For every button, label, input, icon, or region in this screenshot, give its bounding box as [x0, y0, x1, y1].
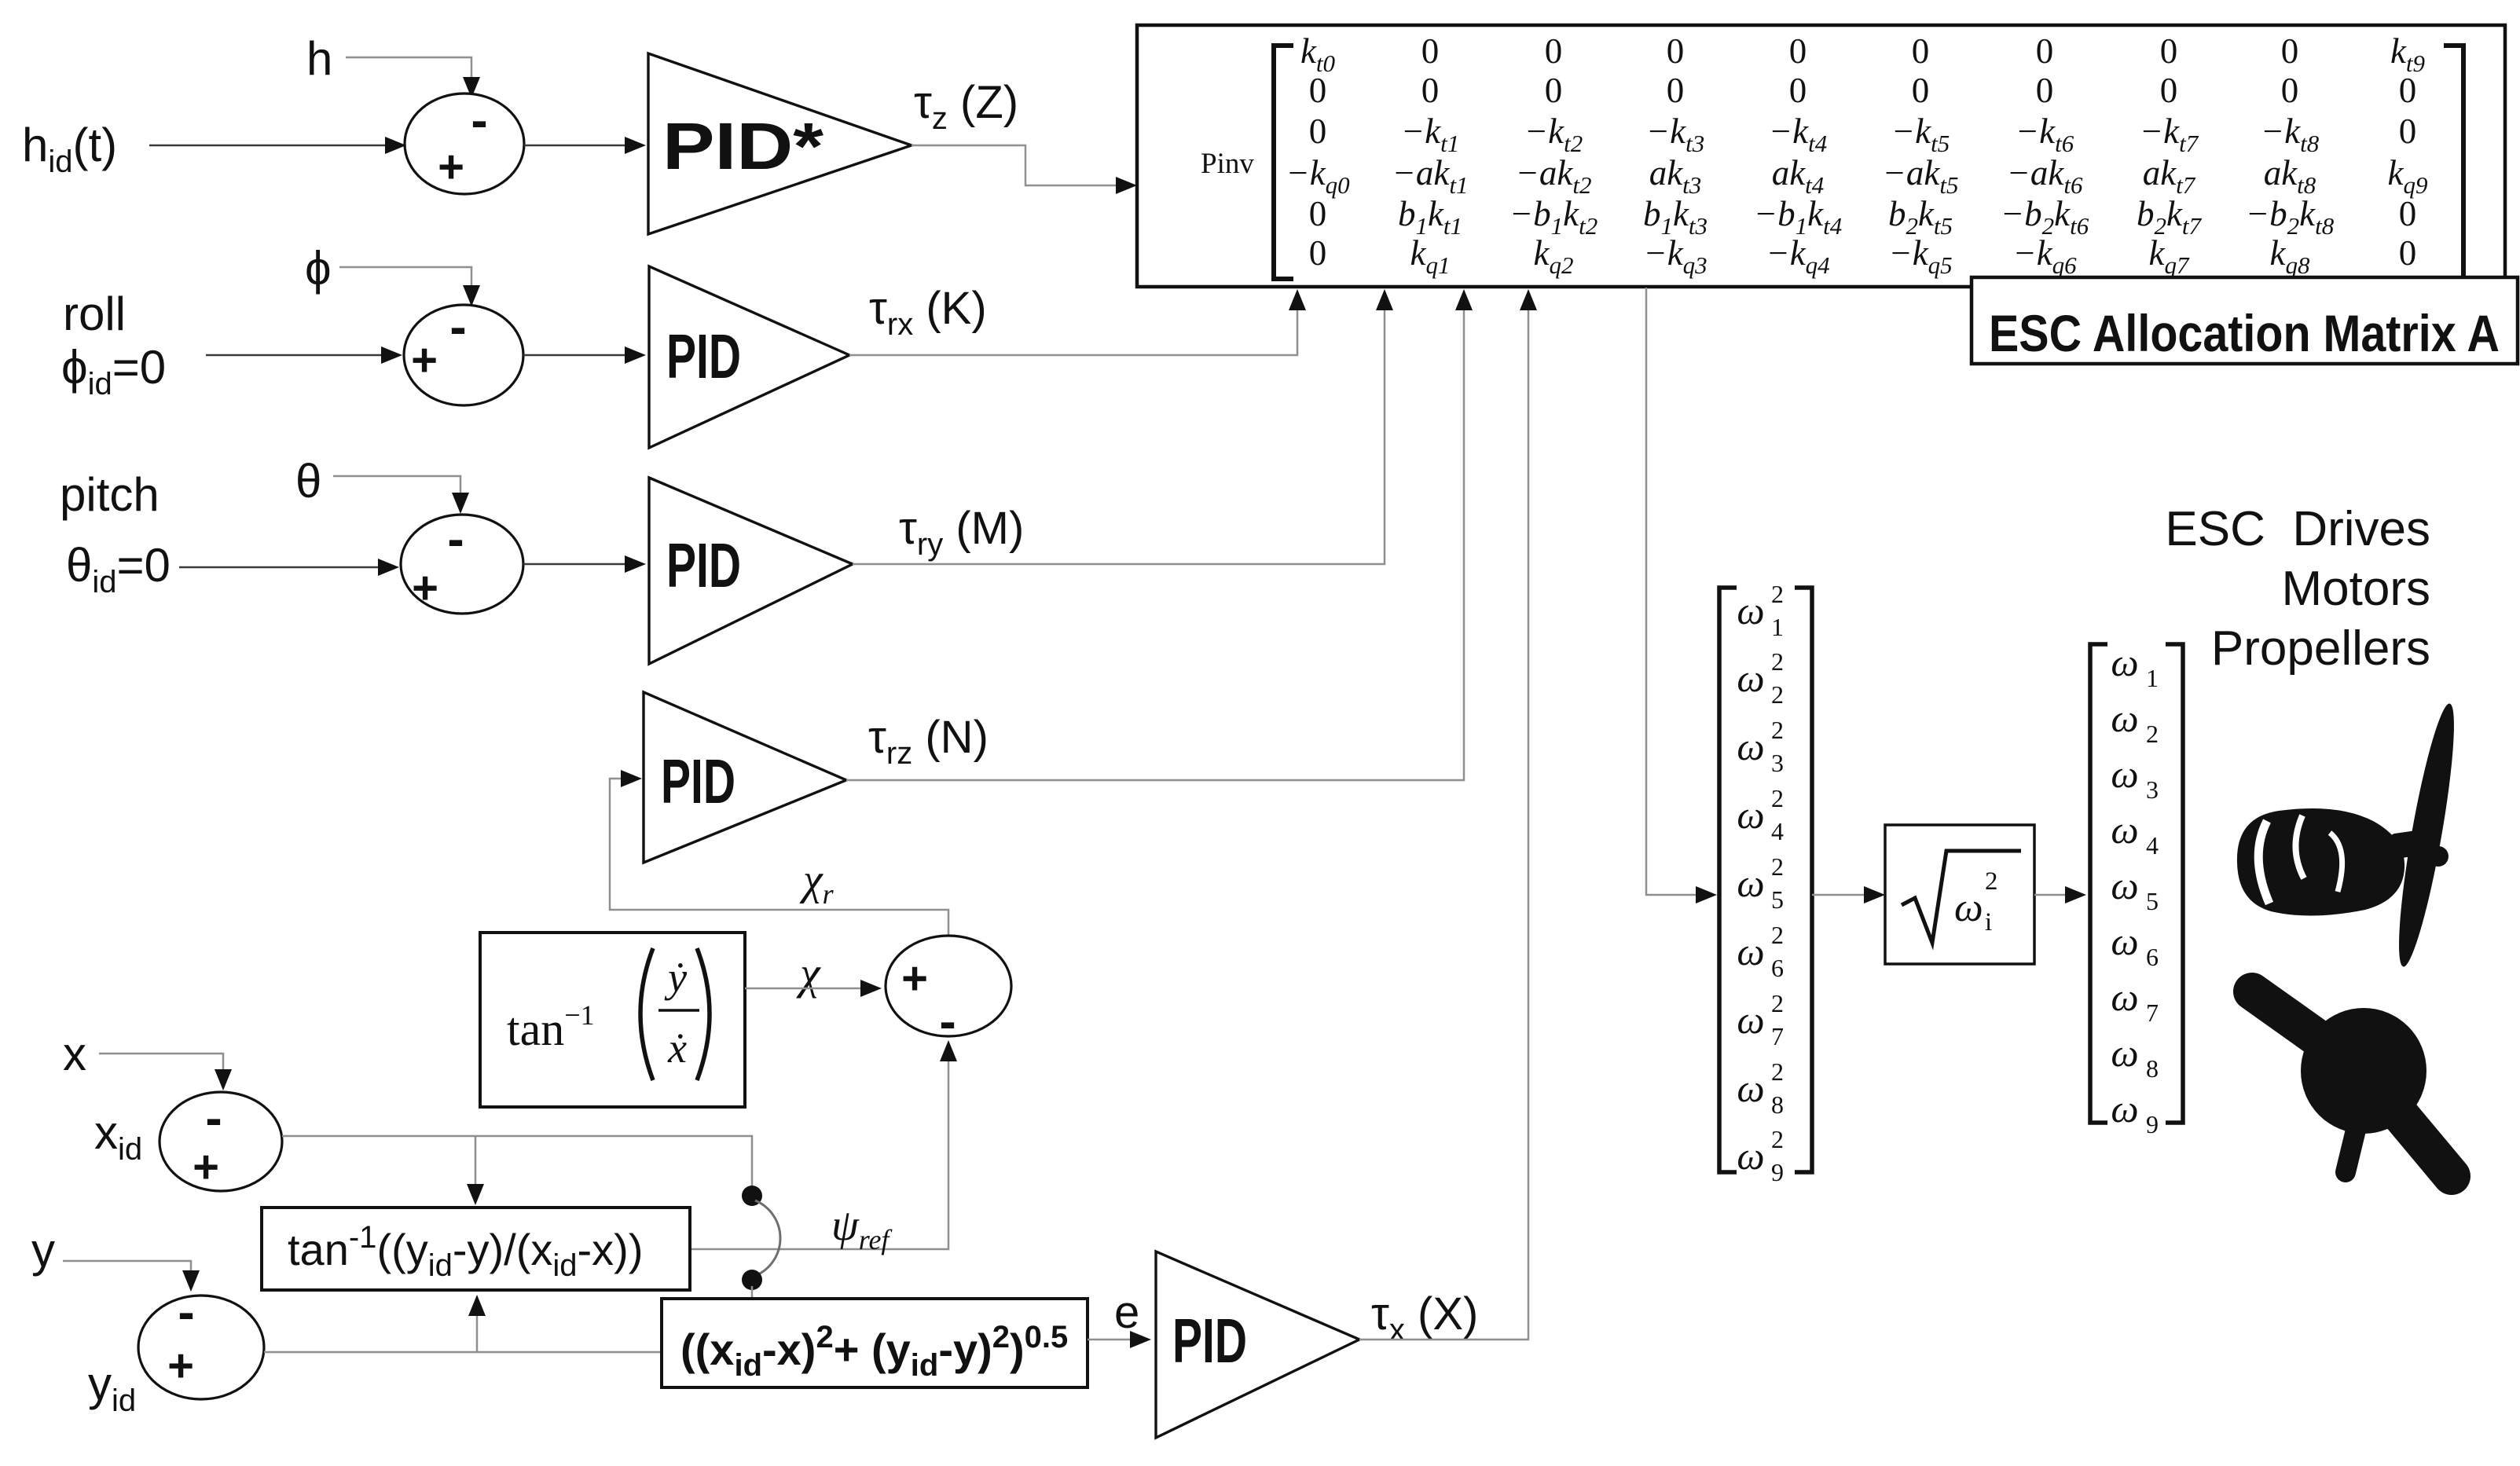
- svg-text:ω: ω: [1737, 1134, 1764, 1178]
- svg-text:2: 2: [1771, 852, 1784, 881]
- svg-text:τz (Z): τz (Z): [914, 77, 1018, 136]
- svg-text:ϕ: ϕ: [305, 242, 332, 295]
- svg-text:0: 0: [2399, 71, 2417, 110]
- svg-text:0: 0: [2399, 112, 2417, 151]
- svg-text:+: +: [193, 1142, 219, 1193]
- svg-text:-: -: [447, 511, 464, 567]
- wire phi to S2: [339, 267, 480, 306]
- wire h_id(t) into S1: [149, 137, 406, 154]
- svg-text:0: 0: [2399, 233, 2417, 273]
- svg-text:ω: ω: [1737, 793, 1764, 837]
- block ESC Allocation Matrix A label: [1972, 277, 2518, 364]
- roll PID controller block: [649, 266, 849, 448]
- net chi_r label: [799, 856, 834, 910]
- wire tau_rx into ESC matrix bottom (arrow 1): [849, 289, 1306, 355]
- label Pinv: [1201, 148, 1254, 180]
- wire x to summing junction S5: [99, 1054, 232, 1090]
- node phi feedback label: [305, 242, 332, 295]
- matrix entries 6x10: [1286, 31, 2427, 279]
- image brushless motor: [2237, 808, 2437, 916]
- wire psi_ref up into S4 bottom: [688, 1040, 957, 1249]
- wire roll reference into S2: [206, 346, 402, 364]
- wire h to summing junction S1: [346, 57, 480, 98]
- vector omega_i (motor speeds): [2090, 640, 2183, 1138]
- junction dot on x error line: [742, 1186, 762, 1206]
- svg-text:3: 3: [2146, 775, 2159, 804]
- svg-text:ω: ω: [1737, 588, 1764, 632]
- svg-text:τrx (K): τrx (K): [869, 283, 987, 342]
- svg-text:2: 2: [1771, 989, 1784, 1017]
- svg-text:+: +: [412, 563, 438, 614]
- wire theta to S3: [333, 476, 469, 514]
- node h input label: [306, 32, 332, 85]
- wire S3 to pitch PID: [523, 555, 646, 573]
- svg-text:+: +: [438, 141, 464, 192]
- svg-text:5: 5: [2146, 887, 2159, 915]
- svg-text:-: -: [471, 92, 487, 148]
- wire matrix output down to omega^2 vector: [1646, 288, 1717, 903]
- summing junction S6 (y error): [138, 1284, 264, 1399]
- svg-text:0: 0: [1545, 71, 1563, 110]
- svg-text:0: 0: [1545, 31, 1563, 71]
- svg-text:PID: PID: [1172, 1306, 1247, 1376]
- svg-text:2: 2: [1985, 867, 1998, 896]
- svg-text:0: 0: [1912, 71, 1930, 110]
- summing junction S4 (course): [886, 936, 1011, 1050]
- matrix left bracket: [1274, 46, 1293, 279]
- svg-text:ω: ω: [2111, 919, 2138, 963]
- net e label: [1114, 1287, 1139, 1338]
- summing junction S2 (roll): [404, 299, 523, 405]
- svg-text:PID: PID: [661, 746, 735, 816]
- node h_id(t) reference label: [22, 119, 117, 179]
- svg-text:θ: θ: [295, 455, 321, 508]
- svg-text:0: 0: [1789, 71, 1807, 110]
- svg-text:Propellers: Propellers: [2211, 621, 2430, 676]
- svg-text:0: 0: [2160, 71, 2178, 110]
- svg-text:pitch: pitch: [60, 468, 160, 521]
- svg-text:1: 1: [1771, 613, 1784, 641]
- block tan^-1((yid-y)/(xid-x)) heading reference: [262, 1208, 690, 1290]
- svg-text:2: 2: [1771, 680, 1784, 709]
- distance PID controller block: [1156, 1252, 1359, 1438]
- node y input label: [31, 1224, 55, 1277]
- svg-text:ω: ω: [2111, 1031, 2138, 1075]
- svg-text:2: 2: [1771, 580, 1784, 608]
- node roll label: [63, 288, 126, 340]
- svg-text:2: 2: [1771, 647, 1784, 676]
- svg-text:h: h: [306, 32, 332, 85]
- svg-text:ESC Allocation Matrix A: ESC Allocation Matrix A: [1989, 304, 2500, 362]
- svg-text:2: 2: [1771, 716, 1784, 744]
- svg-text:-: -: [449, 299, 466, 355]
- svg-text:0: 0: [1667, 71, 1685, 110]
- wire tau_ry into ESC matrix bottom (arrow 2): [853, 289, 1393, 564]
- svg-text:9: 9: [1771, 1158, 1784, 1186]
- node pitch label: [60, 468, 160, 521]
- svg-text:ω: ω: [1737, 656, 1764, 700]
- svg-text:ω: ω: [1737, 998, 1764, 1042]
- net tau_z (Z) label: [914, 77, 1018, 136]
- svg-text:9: 9: [2146, 1110, 2159, 1138]
- net tau_rx (K) label: [869, 283, 987, 342]
- node theta feedback label: [295, 455, 321, 508]
- svg-text:2: 2: [1771, 784, 1784, 812]
- wire tau_z from PID* into ESC matrix left: [912, 145, 1137, 194]
- svg-text:+: +: [411, 335, 438, 386]
- svg-text:ω: ω: [1737, 929, 1764, 973]
- svg-text:0: 0: [1912, 31, 1930, 71]
- svg-text:0: 0: [2281, 71, 2299, 110]
- svg-text:0: 0: [2160, 31, 2178, 71]
- svg-text:0: 0: [1309, 194, 1327, 233]
- svg-text:6: 6: [2146, 943, 2159, 971]
- svg-text:+: +: [167, 1340, 194, 1391]
- wire y to summing junction S6: [63, 1261, 200, 1292]
- block distance error ((xid-x)^2+(yid-y)^2)^0.5: [662, 1299, 1088, 1387]
- wire tau_rz into ESC matrix bottom (arrow 3): [846, 289, 1473, 780]
- svg-text:0: 0: [2036, 71, 2054, 110]
- image propeller with hub: [2252, 991, 2452, 1176]
- wire tau_x into ESC matrix bottom (arrow 4): [1359, 289, 1537, 1340]
- wire x error to psi_ref node with branch into tan2 box: [282, 1136, 752, 1205]
- node theta_id=0 label: [66, 539, 171, 599]
- node y_id label: [88, 1358, 136, 1418]
- wire sqrt block to omega vector: [2034, 886, 2086, 903]
- svg-text:2: 2: [1771, 1125, 1784, 1153]
- wire S1 to PID* block: [524, 137, 646, 154]
- svg-text:5: 5: [1771, 885, 1784, 914]
- block tan^-1(ydot/xdot) course angle: [480, 933, 745, 1107]
- node x_id label: [94, 1106, 142, 1167]
- block square root of omega_i^2: [1885, 825, 2034, 964]
- pitch PID controller block: [649, 478, 853, 664]
- svg-text:e: e: [1114, 1287, 1139, 1338]
- image propeller blade: [2389, 701, 2464, 969]
- svg-text:0: 0: [1309, 112, 1327, 151]
- svg-text:PID: PID: [666, 321, 741, 391]
- summing junction S5 (x error): [160, 1090, 282, 1193]
- PID* altitude controller block: [648, 53, 912, 234]
- svg-text:roll: roll: [63, 288, 126, 340]
- wire chi from tan block into S4: [745, 980, 882, 997]
- summing junction S1 (altitude): [405, 92, 524, 194]
- vector omega_i squared (input): [1719, 580, 1812, 1186]
- svg-text:Motors: Motors: [2282, 562, 2430, 616]
- svg-text:i: i: [1985, 908, 1992, 936]
- svg-text:0: 0: [2281, 31, 2299, 71]
- svg-text:ω: ω: [1954, 885, 1983, 930]
- svg-text:ω: ω: [2111, 1087, 2138, 1131]
- svg-text:ϕid=0: ϕid=0: [61, 341, 166, 401]
- wire e from distance box to distance PID: [1088, 1331, 1151, 1348]
- svg-text:0: 0: [1667, 31, 1685, 71]
- svg-text:ω: ω: [2111, 975, 2138, 1019]
- matrix right bracket: [2444, 46, 2463, 279]
- svg-text:ω: ω: [2111, 696, 2138, 740]
- wire pitch reference into S3: [179, 559, 399, 576]
- net tau_rz (N) label: [868, 712, 989, 771]
- svg-text:+: +: [901, 953, 928, 1004]
- svg-text:7: 7: [2146, 999, 2159, 1027]
- svg-text:ESC Drives: ESC Drives: [2165, 502, 2430, 556]
- svg-text:x: x: [63, 1028, 86, 1080]
- wire y error to distance box with branch up into tan2 box: [264, 1295, 662, 1352]
- svg-text:2: 2: [2146, 720, 2159, 748]
- svg-text:ω: ω: [2111, 808, 2138, 852]
- svg-text:ω: ω: [2111, 863, 2138, 907]
- svg-text:4: 4: [2146, 831, 2159, 859]
- wire chi error from S4 top to yaw PID input: [610, 770, 948, 937]
- svg-text:PID*: PID*: [662, 109, 823, 183]
- net tau_ry (M) label: [899, 503, 1024, 562]
- svg-text:4: 4: [1771, 817, 1784, 845]
- node x input label: [63, 1028, 86, 1080]
- svg-text:2: 2: [1771, 1057, 1784, 1086]
- svg-text:tan-1((yid-y)/(xid-x)): tan-1((yid-y)/(xid-x)): [288, 1220, 643, 1283]
- svg-text:0: 0: [1421, 31, 1440, 71]
- svg-text:8: 8: [1771, 1090, 1784, 1119]
- svg-text:ω: ω: [2111, 752, 2138, 796]
- net tau_x (X) label: [1371, 1288, 1478, 1347]
- svg-text:2: 2: [1771, 921, 1784, 949]
- wire from dot into distance box top: [751, 1286, 754, 1299]
- svg-text:-: -: [205, 1090, 222, 1146]
- svg-text:6: 6: [1771, 954, 1784, 982]
- node phi_id=0 label: [61, 341, 166, 401]
- wire omega^2 vector to sqrt block: [1812, 886, 1885, 903]
- wire hop arc over psi_ref line: [755, 1200, 780, 1276]
- svg-text:0: 0: [2399, 194, 2417, 233]
- svg-text:-: -: [178, 1284, 194, 1340]
- svg-text:7: 7: [1771, 1022, 1784, 1050]
- svg-text:8: 8: [2146, 1054, 2159, 1083]
- svg-text:ẋ: ẋ: [667, 1024, 687, 1072]
- svg-text:ẏ: ẏ: [664, 954, 688, 1001]
- svg-text:ω: ω: [1737, 724, 1764, 768]
- svg-text:θid=0: θid=0: [66, 539, 171, 599]
- svg-text:0: 0: [1421, 71, 1440, 110]
- svg-text:ω: ω: [1737, 861, 1764, 905]
- svg-text:χ: χ: [796, 947, 821, 999]
- svg-text:0: 0: [1309, 233, 1327, 273]
- block ESC allocation matrix outer box: [1137, 25, 2505, 287]
- svg-text:0: 0: [1309, 71, 1327, 110]
- label ESC Drives Motors Propellers: [2165, 502, 2430, 676]
- svg-text:PID: PID: [666, 530, 741, 600]
- summing junction S3 (pitch): [401, 511, 523, 614]
- net chi label: [796, 947, 821, 999]
- wire S2 to roll PID: [523, 346, 646, 364]
- svg-text:1: 1: [2146, 664, 2159, 692]
- svg-text:Pinv: Pinv: [1201, 148, 1254, 180]
- svg-text:y: y: [31, 1224, 55, 1277]
- svg-text:0: 0: [1789, 31, 1807, 71]
- svg-text:ω: ω: [1737, 1066, 1764, 1110]
- svg-text:0: 0: [2036, 31, 2054, 71]
- yaw PID controller block: [644, 692, 846, 863]
- junction dot above distance box: [742, 1270, 762, 1290]
- svg-text:ω: ω: [2111, 640, 2138, 684]
- svg-text:-: -: [939, 993, 956, 1050]
- svg-text:3: 3: [1771, 749, 1784, 777]
- net psi_ref label: [831, 1201, 893, 1255]
